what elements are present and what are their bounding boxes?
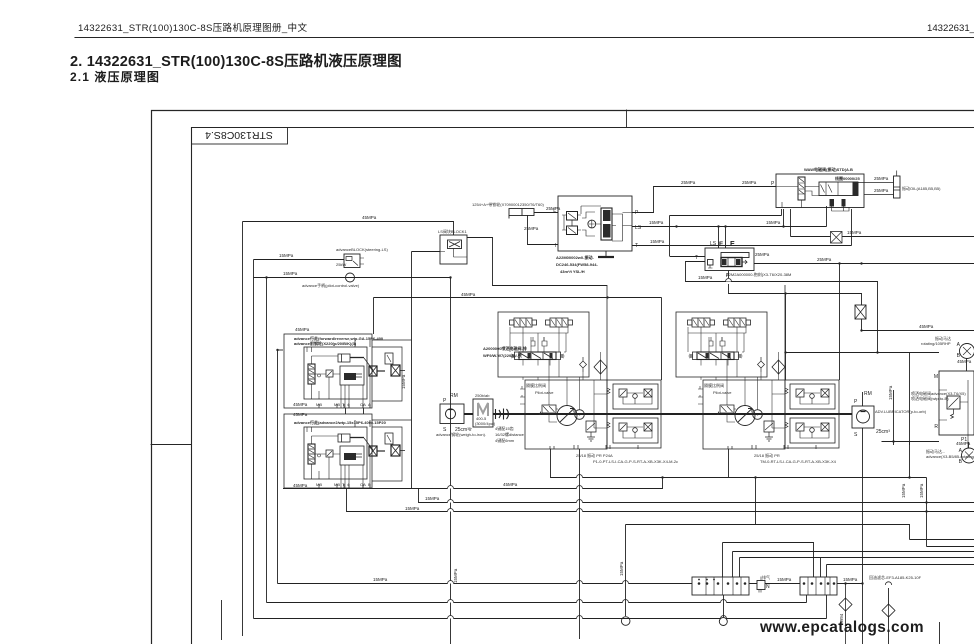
wire h215: [670, 215, 782, 217]
svg-text:15MPa: 15MPa: [847, 230, 862, 235]
svg-text:15MPa: 15MPa: [405, 506, 420, 511]
pump cluster middle (P1): [498, 285, 661, 449]
shaft line left: [464, 413, 473, 415]
tank line h583 right: [837, 583, 862, 585]
wire h297: [374, 297, 662, 299]
wire LS h226: [632, 226, 827, 228]
F flushing block: [705, 248, 754, 271]
svg-text:F: F: [730, 239, 735, 248]
return filter 1: [839, 598, 852, 611]
svg-text:MB: MB: [334, 402, 340, 407]
svg-text:L: L: [553, 208, 556, 214]
svg-text:15MPa: 15MPa: [843, 577, 858, 582]
pump cluster right (P2): [676, 285, 839, 449]
oil cooler block: [440, 235, 467, 264]
pilot control valve block (center top): [558, 196, 632, 251]
coupling: [496, 409, 509, 420]
drop v722 connector1: [722, 543, 724, 578]
wire v783: [783, 209, 785, 227]
solenoid block top right: [776, 174, 864, 208]
svg-text:16/32螺distance: 16/32螺distance: [495, 431, 525, 437]
svg-text:STR130C8S.4: STR130C8S.4: [205, 129, 273, 141]
svg-text:A: A: [368, 402, 371, 407]
bus h564: [827, 564, 974, 566]
svg-text:2. 14322631_STR(100)130C-8S压路机: 2. 14322631_STR(100)130C-8S压路机液压原理图: [70, 52, 402, 70]
right side v909 upper: [909, 353, 911, 446]
svg-text:15MPa: 15MPa: [777, 577, 792, 582]
wire h251 cooler left: [412, 251, 441, 253]
svg-text:LS阀块BLOCK1: LS阀块BLOCK1: [438, 228, 467, 234]
wire h263 long: [754, 263, 974, 265]
wire F tank loop: [686, 262, 878, 353]
svg-text:Pilot-valve: Pilot-valve: [535, 390, 554, 395]
hydraulic cylinder (vibration): [858, 183, 894, 195]
bus right step B1: [733, 551, 974, 553]
drop v820 connector2: [820, 558, 822, 578]
riser v755: [755, 478, 757, 525]
inner frame: [192, 128, 974, 644]
svg-text:P1-0-PT-LS-I-CA-G-P-S-RT-A-XB-: P1-0-PT-LS-I-CA-G-P-S-RT-A-XB-X3K-X4-M-2…: [593, 459, 678, 464]
svg-text:25kW: 25kW: [336, 262, 346, 267]
stub v221: [221, 600, 223, 640]
svg-text:4键配6mm: 4键配6mm: [495, 437, 515, 443]
wire v781: [781, 209, 783, 216]
svg-text:25MPa: 25MPa: [874, 176, 889, 181]
right side v893: [893, 390, 895, 445]
wire P out of pilot block: [632, 187, 776, 213]
wire h221 cooler feed: [243, 222, 454, 236]
wire h441: [882, 441, 940, 443]
gauge G2: [719, 618, 727, 626]
svg-text:15MPa: 15MPa: [650, 239, 665, 244]
bus U2 step: [283, 478, 663, 489]
svg-text:advance(X3-B5/85-rotating/pcs: advance(X3-B5/85-rotating/pcs: [926, 454, 974, 459]
svg-text:25cm³: 25cm³: [876, 429, 890, 435]
svg-text:F: F: [719, 241, 723, 248]
svg-text:25MPa: 25MPa: [524, 226, 539, 231]
svg-text:线圈00000/25: 线圈00000/25: [835, 175, 860, 181]
svg-text:45MPa: 45MPa: [503, 482, 518, 487]
svg-text:45MPa: 45MPa: [957, 359, 972, 364]
wire F ports up: [719, 227, 726, 249]
wire v826 block port: [826, 206, 828, 227]
svg-text:15MPa: 15MPa: [619, 561, 624, 576]
svg-text:15MPa: 15MPa: [901, 483, 906, 498]
svg-text:45MPa: 45MPa: [919, 324, 934, 329]
drop v579: [579, 449, 581, 639]
frame top divider tick: [626, 110, 628, 127]
wire v790: [790, 209, 792, 237]
svg-text:MB: MB: [316, 482, 322, 487]
svg-text:15MPa: 15MPa: [425, 496, 440, 501]
pump2 drop v862: [862, 428, 864, 644]
brake box lower right: [790, 418, 835, 443]
svg-text:rotating/105RHP: rotating/105RHP: [921, 341, 951, 346]
svg-text:TM-0-RT-LS-I-CA-G-P-S-RT-A-XB-: TM-0-RT-LS-I-CA-G-P-S-RT-A-XB-X3K-X4: [760, 459, 837, 464]
svg-text:A2M2A000000-抱刹(X3-T6/X20-38M: A2M2A000000-抱刹(X3-T6/X20-38M: [726, 271, 791, 277]
gauge riser v723: [723, 595, 725, 617]
svg-text:喷洒电磁阀(wtp-to-B): 喷洒电磁阀(wtp-to-B): [911, 395, 949, 401]
svg-text:15MPa: 15MPa: [401, 374, 406, 389]
svg-text:P1: P1: [961, 437, 967, 443]
wire h259: [254, 259, 345, 261]
svg-text:RM: RM: [450, 393, 458, 399]
svg-text:M: M: [934, 374, 938, 380]
drop v739 connector1: [739, 558, 741, 578]
node v242: [242, 222, 244, 637]
svg-text:WF9/W.W7(220A)/-数: WF9/W.W7(220A)/-数: [483, 352, 522, 358]
node v277: [277, 350, 279, 584]
svg-text:排气: 排气: [762, 574, 770, 580]
wire h277: [254, 277, 451, 279]
svg-text:advance前钢轮(X220(p/20/B/K)(3): advance前钢轮(X220(p/20/B/K)(3): [294, 340, 357, 346]
pilot filter-valve small (left): [344, 254, 360, 268]
drop v785: [785, 294, 787, 381]
node v373: [373, 298, 375, 335]
wire v669 T-drop: [669, 216, 671, 257]
svg-text:25MPa: 25MPa: [817, 257, 832, 262]
svg-text:15MPa: 15MPa: [698, 275, 713, 280]
svg-text:OA: OA: [360, 402, 366, 407]
brake box upper mid: [613, 384, 658, 409]
outer frame: [152, 111, 974, 644]
bus right step B2: [740, 557, 974, 559]
left drive valve block 2: [284, 414, 412, 488]
svg-text:Pilot-valve: Pilot-valve: [713, 390, 732, 395]
drive motor M2: [962, 448, 974, 463]
tank line h583 mid: [749, 583, 800, 585]
header rule: [75, 37, 974, 39]
connector strip 1: [692, 577, 749, 595]
connector2 bottom drop: [806, 595, 808, 603]
svg-text:回油滤芯-EF3-A185-K25-10F: 回油滤芯-EF3-A185-K25-10F: [869, 574, 922, 580]
svg-text:15MPa: 15MPa: [279, 253, 294, 258]
wire h236 long: [791, 236, 974, 238]
node v266: [266, 278, 268, 603]
bump on T loop at x728: [726, 279, 732, 282]
svg-text:43m³/t YSL/H: 43m³/t YSL/H: [560, 269, 585, 274]
svg-text:T: T: [695, 255, 698, 261]
svg-text:25/18 振动 PR: 25/18 振动 PR: [754, 452, 780, 458]
svg-text:15MPa: 15MPa: [888, 385, 893, 400]
pump1 line through: [450, 278, 452, 644]
svg-text:14322631_STR(100)130C-8S压路机原理图: 14322631_STR(100)130C-8S压路机原理图册_中文: [78, 22, 307, 34]
svg-text:DC246-534(FW58-944-: DC246-534(FW58-944-: [556, 262, 598, 267]
svg-text:A22M00002w0-振动-: A22M00002w0-振动-: [556, 254, 594, 260]
connector2 right riser: [826, 595, 828, 619]
svg-text:45MPa: 45MPa: [293, 402, 308, 407]
strainer small block right: [855, 305, 866, 319]
svg-text:45MPa: 45MPa: [293, 483, 308, 488]
svg-text:25MPa: 25MPa: [681, 180, 696, 185]
svg-text:ADV.LUBRICATOR(p-to-orb): ADV.LUBRICATOR(p-to-orb): [875, 409, 927, 414]
drop v661: [661, 298, 663, 381]
svg-text:RM: RM: [864, 391, 872, 397]
pump1 (steering pump): [440, 404, 464, 424]
svg-text:15MPa: 15MPa: [373, 577, 388, 582]
svg-text:隔膜比例阀: 隔膜比例阀: [526, 382, 546, 388]
svg-text:2.1 液压原理图: 2.1 液压原理图: [70, 69, 160, 84]
frame left divider tick: [151, 444, 191, 446]
drop v732 connector1: [732, 552, 734, 578]
svg-text:advance手柄(pilot-control-valve): advance手柄(pilot-control-valve): [302, 282, 360, 288]
svg-text:45MPa: 45MPa: [293, 412, 308, 417]
svg-text:25MPa: 25MPa: [874, 188, 889, 193]
pump2 (right pump): [852, 406, 874, 428]
svg-text:250b/ab: 250b/ab: [475, 393, 490, 398]
svg-text:25MPa: 25MPa: [755, 252, 770, 257]
bumps h583: [448, 581, 454, 584]
bus U3: [419, 489, 974, 503]
svg-text:advance钢轮(weigh-to-iron).: advance钢轮(weigh-to-iron).: [436, 431, 486, 437]
svg-text:(3000/4pol): (3000/4pol): [475, 421, 496, 426]
tank line h583: [278, 583, 693, 585]
svg-text:OA: OA: [360, 482, 366, 487]
svg-text:R: R: [934, 424, 938, 430]
svg-text:T: T: [635, 243, 638, 249]
bumps h618: [448, 616, 454, 619]
accumulator (top): [509, 209, 534, 216]
bleed fitting between connectors: [757, 581, 765, 590]
wire F P-port down: [729, 271, 862, 306]
inter-block stubs: [346, 408, 364, 414]
connector dots: [698, 579, 836, 585]
svg-text:振动OIL(A185,B5,B5): 振动OIL(A185,B5,B5): [902, 185, 941, 191]
wire h256 to F: [670, 256, 706, 258]
svg-text:15MPa: 15MPa: [283, 271, 298, 276]
bus U4: [347, 489, 974, 512]
wire accumulator to P-block h212: [534, 212, 558, 214]
brake box upper right: [790, 384, 835, 409]
drive motor M1: [960, 344, 974, 359]
title block box STR130C8S.4: [192, 128, 288, 145]
gauge riser v625: [625, 525, 627, 617]
connector strip 2: [800, 577, 837, 595]
wire v851 block port: [851, 209, 853, 246]
wire h330 long: [862, 330, 974, 332]
svg-text:MB: MB: [334, 482, 340, 487]
svg-text:15MPa: 15MPa: [919, 483, 924, 498]
tank line h602: [267, 602, 807, 604]
node v253: [253, 260, 255, 619]
check box on vibration lines: [831, 232, 843, 244]
far right charge block: [939, 371, 974, 435]
svg-text:WAW电磁阀(振动)STD(A.B: WAW电磁阀(振动)STD(A.B: [804, 166, 853, 172]
svg-text:MB: MB: [316, 402, 322, 407]
motor M2 stub: [968, 442, 970, 448]
svg-text:LS: LS: [710, 241, 717, 247]
svg-text:45MPa: 45MPa: [295, 327, 310, 332]
svg-text:45MPa: 45MPa: [461, 292, 476, 297]
svg-text:LS: LS: [635, 225, 642, 231]
svg-text:25MPa: 25MPa: [742, 180, 757, 185]
svg-text:25/18 振动 PR P24A: 25/18 振动 PR P24A: [576, 452, 613, 458]
svg-text:B: B: [368, 482, 371, 487]
tank line h618: [254, 618, 827, 620]
drop v939 stub: [939, 622, 941, 644]
svg-text:14322631_S: 14322631_S: [927, 23, 974, 34]
svg-text:I: I: [555, 243, 556, 249]
svg-text:A2000000喷洒电磁阀-排: A2000000喷洒电磁阀-排: [483, 345, 527, 351]
svg-text:advanceBLOCK(steering-LS): advanceBLOCK(steering-LS): [336, 247, 388, 252]
right cluster port drop v728: [728, 449, 730, 478]
svg-text:1254+A+带铁轮(X70900012350/T6/T60: 1254+A+带铁轮(X70900012350/T6/T60): [472, 201, 544, 207]
shaft line main: [493, 413, 852, 415]
right block drop v881: [909, 442, 911, 478]
pump2 riser: [862, 392, 864, 406]
motor M1 stub: [966, 358, 968, 371]
return filter 2 (with breather): [885, 582, 891, 585]
brake box lower mid: [613, 418, 658, 443]
wire h526: [626, 525, 910, 540]
electric motor M: [473, 399, 493, 427]
drop v826 connector2 top: [826, 565, 828, 578]
gauge G1: [621, 617, 630, 626]
svg-text:4键配15齿: 4键配15齿: [495, 425, 514, 431]
gauge circle under pilot valve: [346, 273, 355, 282]
svg-text:15MPa: 15MPa: [453, 568, 458, 583]
ground symbol: [605, 251, 607, 256]
wire T h245: [632, 245, 852, 247]
wire h352 to right block: [786, 352, 940, 354]
svg-text:N: N: [766, 584, 770, 590]
node v411: [411, 252, 413, 489]
wire cooler right h237: [467, 238, 607, 286]
svg-text:15MPa: 15MPa: [766, 220, 781, 225]
svg-text:advance行走(advance2/wtp-15x15P6: advance行走(advance2/wtp-15x15P6-400x.15P2…: [294, 419, 387, 425]
svg-text:隔膜比例阀: 隔膜比例阀: [704, 382, 724, 388]
bumps h602: [448, 600, 454, 603]
wire stub to block1: [278, 349, 284, 351]
svg-text:W94: W94: [839, 613, 844, 623]
svg-text:15MPa: 15MPa: [649, 220, 664, 225]
svg-text:45MPa: 45MPa: [362, 215, 377, 220]
wire v861 strainer drop: [861, 319, 863, 331]
bus U1 h477: [551, 449, 927, 478]
left drive valve block 1: [284, 334, 412, 408]
wire accumulator drop: [528, 215, 559, 245]
bus B3 into connector2: [723, 543, 814, 578]
drop v839: [839, 264, 841, 381]
